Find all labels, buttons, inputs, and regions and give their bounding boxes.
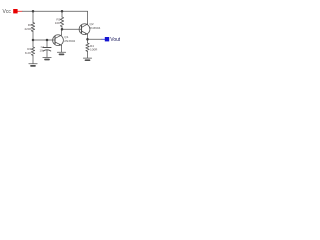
node junction rail-R1 xyxy=(32,10,35,13)
wire top rail xyxy=(22,10,87,12)
svg-text:100R: 100R xyxy=(90,48,98,52)
svg-text:2N3904: 2N3904 xyxy=(90,26,101,30)
wire Vcc red segment xyxy=(18,10,23,12)
node Vout label xyxy=(110,37,121,43)
node Vcc label xyxy=(3,9,12,15)
wire R3 bottom lead xyxy=(61,27,63,30)
wire Vout blue segment xyxy=(102,38,105,40)
wire R3 top lead xyxy=(61,11,63,17)
svg-text:Vcc: Vcc xyxy=(3,9,12,15)
ground below C1 xyxy=(43,56,51,58)
svg-text:10u: 10u xyxy=(39,49,44,53)
resistor R4 xyxy=(86,43,89,51)
wire Q2 collector drop xyxy=(87,11,89,24)
wire Q1 collector lead xyxy=(61,29,63,35)
wire base net to Q1 xyxy=(33,39,55,41)
node junction C1 tap xyxy=(46,39,49,42)
node Vout marker xyxy=(105,37,109,41)
wire R2 top lead xyxy=(32,40,34,47)
wire R1 top lead xyxy=(32,11,34,22)
capacitor C1 xyxy=(43,47,51,49)
svg-text:2N3904: 2N3904 xyxy=(64,39,75,43)
node A junction xyxy=(32,39,35,42)
wire Vout net xyxy=(88,38,102,40)
wire Q2 emitter lead xyxy=(87,34,89,43)
node Vcc marker xyxy=(13,9,17,13)
svg-text:Vout: Vout xyxy=(110,37,120,43)
transistor Q1 xyxy=(53,35,64,46)
svg-text:8.2K: 8.2K xyxy=(25,51,32,55)
ground below R4 xyxy=(83,57,91,59)
wire R4 bottom lead xyxy=(87,51,89,58)
svg-text:220K: 220K xyxy=(24,27,32,31)
wire Q2 collector lead xyxy=(87,23,89,25)
ground below Q1 xyxy=(57,51,65,53)
resistor R3 xyxy=(60,17,63,27)
svg-text:10K: 10K xyxy=(55,21,61,25)
ground below R2 xyxy=(29,63,37,65)
wire Q1 emitter lead xyxy=(61,45,63,52)
wire R2 bottom lead xyxy=(32,55,34,63)
node junction Vout-R4 xyxy=(86,38,89,41)
wire C1 bottom lead xyxy=(46,50,48,57)
resistor R1 xyxy=(31,23,34,32)
wire R1 bottom lead xyxy=(32,32,34,41)
resistor R2 xyxy=(31,47,34,55)
node junction rail-R3 xyxy=(61,10,64,13)
wire C1 top lead xyxy=(46,40,48,47)
node junction R3-Q1-Q2 xyxy=(61,28,64,31)
transistor Q2 xyxy=(79,24,90,35)
wire node to Q2 base xyxy=(62,28,82,30)
